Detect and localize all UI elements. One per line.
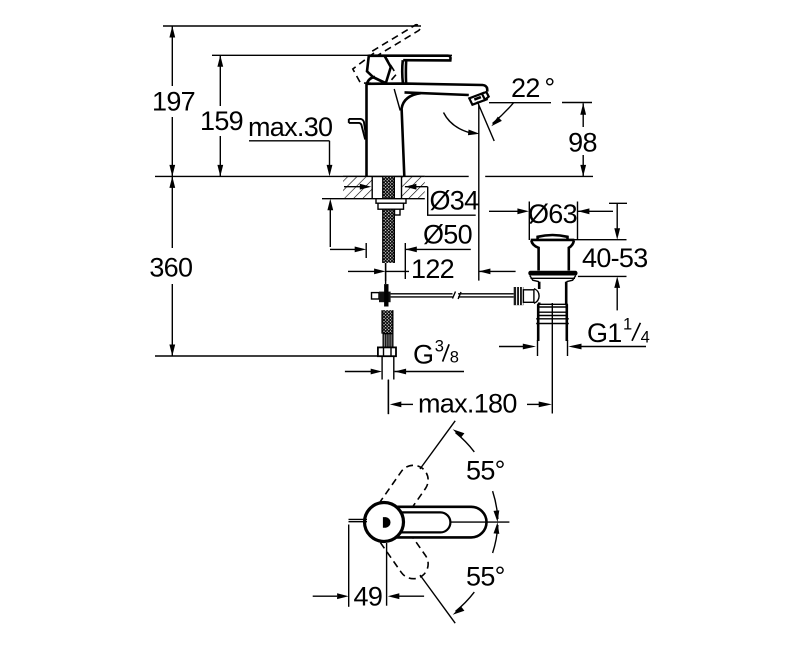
arc arrowhead at line <box>453 429 465 438</box>
spout underside line <box>405 92 469 95</box>
dashed lever rotated up 55° <box>379 459 434 520</box>
lever inner outline <box>383 512 450 532</box>
handle neck <box>401 60 404 83</box>
svg-text:360: 360 <box>149 253 192 283</box>
pull rod knob on body <box>349 119 367 139</box>
dimension 197 line <box>171 26 173 86</box>
svg-text:4: 4 <box>641 328 650 346</box>
svg-text:49: 49 <box>354 582 383 612</box>
max.30 leader line <box>249 140 330 142</box>
dimension 360 line <box>171 176 173 248</box>
deck hatching left <box>343 176 372 198</box>
dimension line Ø63 <box>489 210 518 212</box>
55° arc bottom <box>456 592 475 611</box>
svg-text:1: 1 <box>623 315 632 333</box>
stud tab <box>395 209 401 215</box>
mounting hole edges <box>371 176 373 198</box>
dimension G3/8 arrows <box>345 371 372 373</box>
98 top tick <box>562 102 592 104</box>
pull rod horizontal <box>391 293 453 295</box>
dimension arrows Ø34 <box>344 186 362 188</box>
tee fitting nut <box>379 292 391 303</box>
drain skirt <box>530 276 576 282</box>
aerator level reference line <box>489 102 551 104</box>
svg-text:Ø34: Ø34 <box>430 186 480 216</box>
hose ribbed connector <box>383 334 393 348</box>
tee pin <box>384 284 388 306</box>
drain plug dome <box>538 235 568 240</box>
tee fitting left cap <box>372 293 380 299</box>
reference line handle level (159) <box>212 54 452 56</box>
threaded shank + upper hose braid <box>383 177 395 263</box>
lower hose braid <box>382 310 393 333</box>
dimension 159 line <box>219 55 221 106</box>
svg-text:98: 98 <box>568 128 597 158</box>
deck bottom extension line <box>322 198 343 200</box>
rod break <box>453 292 462 300</box>
49 extension lines <box>348 525 350 607</box>
spout inner curve <box>402 93 421 176</box>
dimension 49 <box>313 595 337 597</box>
extension lines Ø50 <box>365 243 367 258</box>
22° leader arc <box>493 103 514 124</box>
max.180 dimension line <box>390 402 402 408</box>
40-53 top reference <box>571 239 626 241</box>
stream vertical line <box>478 105 480 281</box>
svg-text:Ø50: Ø50 <box>423 220 472 250</box>
pull rod (top view) <box>349 518 368 520</box>
svg-text:8: 8 <box>450 348 459 366</box>
aerator slot <box>474 96 482 101</box>
center line right <box>450 521 509 523</box>
hose center line <box>385 263 387 284</box>
pull rod continues <box>458 293 514 295</box>
handle lever bar <box>369 56 451 61</box>
aerator outer <box>469 93 486 105</box>
55° line top <box>420 421 455 469</box>
arc arrowhead at line <box>453 606 465 615</box>
swivel curved arrow <box>444 113 471 133</box>
drain knurled knob <box>514 287 524 305</box>
G1 1/4 dimension arrows <box>499 346 523 348</box>
handle dashed raised lever <box>372 25 420 56</box>
washer below deck <box>376 199 406 204</box>
dashed lever rotated down 55° <box>379 523 434 584</box>
svg-text:197: 197 <box>152 87 195 117</box>
lever outer outline (top view) <box>379 507 487 538</box>
svg-text:G1: G1 <box>587 318 622 348</box>
center tick <box>385 263 387 281</box>
handle dashed pivot outline <box>353 53 384 83</box>
dimension line 122 <box>348 270 375 272</box>
svg-text:122: 122 <box>411 254 454 284</box>
body circle (top view) <box>365 503 404 542</box>
extension lines Ø63 <box>528 202 530 241</box>
dimension line Ø50 <box>330 248 356 250</box>
knob neck <box>523 290 534 303</box>
handle pivot <box>367 56 391 83</box>
faucet body top and spout top edge <box>367 84 488 92</box>
body dome under handle <box>367 77 375 84</box>
mounting nut <box>378 203 404 209</box>
bottom reference line (360 level) <box>155 355 378 357</box>
dimension 98 line <box>582 103 584 127</box>
svg-text:Ø63: Ø63 <box>528 199 577 229</box>
G3/8 pipe <box>381 356 383 379</box>
svg-text:159: 159 <box>200 106 243 136</box>
coupling band <box>536 318 569 320</box>
faucet body left edge <box>365 84 368 176</box>
deck bottom edge <box>343 198 425 200</box>
plug rod center line <box>551 303 553 414</box>
drain body <box>538 282 541 289</box>
G1 1/4 extension stubs <box>537 340 539 356</box>
40-53 bottom arrow <box>614 276 620 288</box>
aerator end cap <box>482 92 489 100</box>
55° arc top <box>456 433 475 452</box>
max.180 extension lines <box>387 380 389 414</box>
deck reference line <box>155 175 469 177</box>
drain o-ring <box>528 271 577 276</box>
stream slanted line <box>477 102 494 142</box>
svg-text:G: G <box>413 339 433 369</box>
40-53 top tick <box>609 202 627 204</box>
55° line bottom <box>420 575 455 623</box>
svg-text:22 °: 22 ° <box>511 73 554 103</box>
G3/8 hex nut <box>378 347 396 356</box>
svg-text:55°: 55° <box>466 456 505 486</box>
max.30 lower arrow below deck <box>327 199 333 211</box>
40-53 bottom reference <box>578 275 627 277</box>
deck hatching right <box>402 176 425 198</box>
leader Ø34 <box>428 187 476 216</box>
drain flange <box>531 239 575 242</box>
spout crease line <box>394 89 400 111</box>
body boss arc <box>534 289 539 304</box>
svg-text:max.30: max.30 <box>248 112 332 142</box>
center extension line <box>387 380 389 415</box>
svg-text:max.180: max.180 <box>418 388 517 418</box>
svg-text:3: 3 <box>435 338 444 356</box>
svg-text:55°: 55° <box>466 562 505 592</box>
drain tailpipe <box>537 304 540 341</box>
reference line top (197 level) <box>163 25 421 27</box>
drain body bands <box>537 303 568 305</box>
cartridge slot mark <box>383 517 391 528</box>
svg-text:40-53: 40-53 <box>582 243 648 273</box>
